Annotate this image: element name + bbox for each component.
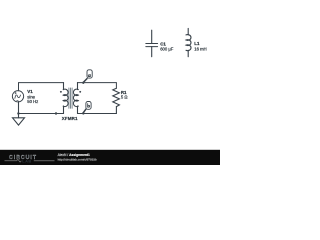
secondary polarity dot: [79, 91, 81, 93]
V1 label: [27, 89, 38, 104]
junction dot bottom rail: [55, 112, 57, 114]
svg-text:L1: L1: [194, 41, 200, 46]
svg-text:XFMR1: XFMR1: [62, 116, 78, 121]
CircuitLab logo: [5, 155, 55, 163]
ground: [13, 114, 25, 126]
wire secondary top to R1: [78, 83, 117, 89]
inductor L1: [186, 28, 191, 56]
L1 label: [194, 41, 206, 51]
svg-text:5 Ω: 5 Ω: [121, 95, 128, 100]
R1 label: [121, 90, 128, 99]
svg-text:V1: V1: [27, 89, 33, 94]
wire V1 bottom / bottom rail left: [19, 102, 64, 114]
wire secondary bottom to R1: [78, 107, 117, 114]
svg-text:http://circuitlab.com/c/97933b: http://circuitlab.com/c/97933b: [58, 158, 97, 162]
transformer XFMR1 secondary winding: [73, 83, 78, 114]
resistor R1: [113, 88, 120, 106]
junction dot below V1: [17, 112, 19, 114]
node b flag: [83, 102, 91, 113]
junction dot node a: [82, 82, 84, 84]
transformer XFMR1 primary winding: [63, 83, 68, 114]
capacitor C1: [146, 30, 158, 57]
C1 label: [160, 41, 174, 51]
svg-text:16 mH: 16 mH: [194, 46, 206, 51]
transformer core: [69, 88, 72, 108]
footer credit text: [58, 153, 97, 161]
junction dot node b: [82, 112, 84, 114]
primary polarity dot: [60, 91, 62, 93]
svg-text:LAB: LAB: [22, 158, 31, 163]
node a flag: [84, 70, 93, 82]
svg-text:600 µF: 600 µF: [160, 47, 174, 52]
footer watermark bar: [0, 150, 220, 165]
svg-text:50 Hz: 50 Hz: [27, 99, 38, 104]
wire V1 top to primary: [19, 83, 64, 91]
voltage source V1: [12, 91, 23, 102]
